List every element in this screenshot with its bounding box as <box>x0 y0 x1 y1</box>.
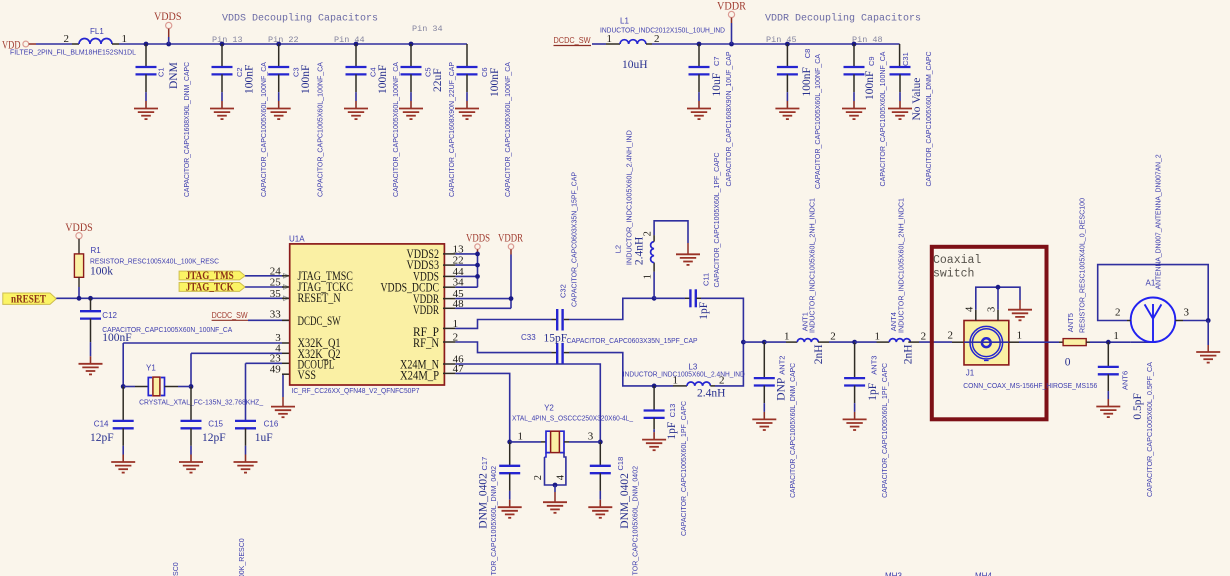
pin stub <box>443 307 455 309</box>
wire VSS gnd stub <box>282 397 284 407</box>
svg-text:CAPACITOR_CAPC0603X35N_15PF_CA: CAPACITOR_CAPC0603X35N_15PF_CAP <box>570 172 579 307</box>
wire A1 to gnd <box>1207 321 1209 346</box>
svg-text:15pF: 15pF <box>544 333 568 345</box>
wire corner C6 <box>466 44 468 67</box>
svg-text:VDDR: VDDR <box>717 1 746 13</box>
svg-text:2: 2 <box>921 331 927 343</box>
svg-text:CAPACITOR_CAPC1005X60L_100NF_C: CAPACITOR_CAPC1005X60L_100NF_CA <box>391 62 400 197</box>
svg-text:IC_RF_CC26XX_QFN48_V2_QFNFC50P: IC_RF_CC26XX_QFN48_V2_QFNFC50P7 <box>292 386 420 395</box>
svg-text:1: 1 <box>643 274 654 279</box>
svg-text:Pin 22: Pin 22 <box>268 35 299 45</box>
wire C11 to ANT node <box>701 298 743 342</box>
underline DCDC_SW <box>554 45 592 47</box>
svg-text:C18: C18 <box>616 457 625 471</box>
pin stub <box>443 363 455 365</box>
pin stub left <box>282 352 290 354</box>
wire DCDC_SW pin33 <box>248 319 290 321</box>
pin Y1.2 <box>165 386 179 388</box>
junction C8 <box>785 42 790 47</box>
connector J1 <box>964 321 1009 365</box>
svg-text:CAPACITOR_CAPC1005X60L_100NF_C: CAPACITOR_CAPC1005X60L_100NF_CA <box>259 62 268 197</box>
svg-text:1pF: 1pF <box>666 422 678 440</box>
svg-text:DCDC_SW: DCDC_SW <box>554 36 591 45</box>
svg-text:2.4nH: 2.4nH <box>634 237 646 265</box>
junction C1 <box>144 42 149 47</box>
svg-text:nRESET: nRESET <box>11 294 46 306</box>
capacitor C9 <box>844 44 865 109</box>
wire pin13 <box>455 253 477 255</box>
wire to ANT2 <box>743 341 764 343</box>
wire Y2 left <box>510 441 541 443</box>
wire to ANT1 <box>764 341 786 343</box>
capacitor ANT3 <box>844 342 865 419</box>
svg-text:2: 2 <box>1115 307 1121 319</box>
junction pin44 <box>475 274 480 279</box>
wire ANT4 to J1 <box>919 341 952 343</box>
svg-text:VDDS Decoupling Capacitors: VDDS Decoupling Capacitors <box>222 13 378 25</box>
wire VDDS bus <box>477 254 479 287</box>
svg-text:35: 35 <box>270 288 282 300</box>
svg-text:ANT2: ANT2 <box>778 356 787 375</box>
pin FL1.1 <box>112 43 119 45</box>
ground Y2 <box>543 502 567 513</box>
svg-text:DCDC_SW: DCDC_SW <box>298 314 341 328</box>
svg-text:VDDR: VDDR <box>498 233 523 245</box>
wire J1 pin3 up <box>997 287 999 310</box>
capacitor C12 <box>80 298 101 364</box>
svg-text:C32: C32 <box>559 284 568 298</box>
pin C11.2 <box>696 297 701 299</box>
pin C32.1 <box>552 319 557 321</box>
wire VDDR stub2 <box>731 23 733 44</box>
crystal Y1 <box>148 378 164 396</box>
wire Y1 right <box>178 386 191 388</box>
wire ANT5 to A1 <box>1090 341 1131 343</box>
ground L2 <box>676 254 700 265</box>
svg-text:10uH: 10uH <box>622 59 648 71</box>
svg-text:L1: L1 <box>620 17 629 26</box>
wire L2 to gnd <box>654 221 688 243</box>
wire VDDS stub2 <box>168 37 170 44</box>
svg-text:2nH: 2nH <box>903 344 915 364</box>
capacitor ANT6 <box>1098 342 1119 406</box>
wire DCOUPL down <box>245 363 247 421</box>
capacitor C8 <box>777 44 798 109</box>
capacitor C33 <box>557 343 562 364</box>
pin circle VDDS 3 <box>475 244 480 249</box>
capacitor C16 <box>235 421 256 462</box>
ground VSS <box>271 407 295 418</box>
pin R1.2 <box>78 277 80 287</box>
svg-text:INDUCTOR_INDC1005X60L_2NH_INDC: INDUCTOR_INDC1005X60L_2NH_INDC1 <box>897 198 906 333</box>
svg-text:CAPACITOR_CAPC1005X60L_DNM_040: CAPACITOR_CAPC1005X60L_DNM_0402 <box>631 466 640 576</box>
coax switch enclosure <box>932 247 1047 419</box>
pin stub <box>443 253 455 255</box>
ground J1 <box>1008 310 1032 321</box>
inductor ANT4 <box>889 339 910 342</box>
pin A1.2 <box>1127 320 1131 322</box>
svg-text:CAPACITOR_CAPC1005X60L_1PF_CAP: CAPACITOR_CAPC1005X60L_1PF_CAPC <box>712 152 721 288</box>
pin R1.1 <box>78 239 80 254</box>
svg-text:RESISTOR_RESC1005X40L_0_RESC10: RESISTOR_RESC1005X40L_0_RESC100 <box>1078 198 1087 333</box>
wire node to C11 <box>654 297 685 299</box>
svg-text:C12: C12 <box>102 311 117 320</box>
pin L2.2 <box>653 235 655 242</box>
wire pin45 <box>455 298 511 300</box>
wire ANT3 to ANT4 <box>855 341 877 343</box>
svg-text:22uF: 22uF <box>432 68 444 92</box>
svg-text:Coaxial: Coaxial <box>933 254 981 267</box>
wire L2 gnd stub <box>687 243 689 254</box>
capacitor C31 <box>890 67 911 109</box>
wire through J1 <box>964 341 1009 343</box>
capacitor C17 <box>499 442 520 507</box>
svg-text:R1: R1 <box>91 246 102 255</box>
svg-text:C6: C6 <box>480 67 489 77</box>
svg-text:J1: J1 <box>966 369 975 378</box>
pin marker <box>284 296 289 301</box>
ground <box>843 419 867 430</box>
junction Y2.3 <box>598 440 603 445</box>
ground <box>842 109 866 120</box>
wire VDDS stub <box>168 29 170 37</box>
capacitor C6 <box>457 67 478 109</box>
junction VDDR <box>729 42 734 47</box>
svg-text:CAPACITOR_CAPC1005X60L_1PF_CAP: CAPACITOR_CAPC1005X60L_1PF_CAPC <box>679 400 688 536</box>
wire nRESET to RESET_N <box>56 297 289 299</box>
ground A1 <box>1196 352 1220 363</box>
capacitor C2 <box>212 44 233 109</box>
pin stub left <box>282 275 290 277</box>
junction RF node <box>741 340 746 345</box>
junction Y2 gnd <box>553 483 558 488</box>
svg-text:1: 1 <box>518 430 524 442</box>
IC U1A body <box>290 244 445 385</box>
pin C32.2 <box>564 319 569 321</box>
wire VDD stub <box>29 43 36 45</box>
wire R1 to net <box>78 287 80 298</box>
wire VDD to FL1 <box>36 43 72 45</box>
pin J1.4 <box>975 310 977 321</box>
ground <box>775 109 799 120</box>
pin circle VDDR <box>728 11 734 17</box>
svg-text:100k: 100k <box>90 266 113 278</box>
svg-text:100nF: 100nF <box>489 68 501 97</box>
svg-text:DNM_0402: DNM_0402 <box>478 473 490 529</box>
junction J1 gnd net <box>996 285 1001 290</box>
ground <box>210 109 234 120</box>
svg-text:switch: switch <box>933 268 974 281</box>
svg-text:0: 0 <box>1065 357 1071 369</box>
wire VDDR bus <box>510 255 512 309</box>
pin stub <box>443 275 455 277</box>
svg-text:RESISTOR_RESC1005X40L_100K_RES: RESISTOR_RESC1005X40L_100K_RESC0 <box>171 562 180 576</box>
svg-text:1pF: 1pF <box>698 302 710 320</box>
inductor L1 <box>620 40 646 44</box>
wire Y2 gnd <box>554 485 556 492</box>
ground <box>455 109 479 120</box>
pin stub <box>443 264 455 266</box>
capacitor C7 <box>689 44 710 109</box>
svg-text:2: 2 <box>948 330 954 342</box>
ground <box>399 109 423 120</box>
wire VDDR bus stub <box>510 249 512 254</box>
svg-text:Pin 44: Pin 44 <box>334 35 365 45</box>
junction C2 <box>220 42 225 47</box>
wire Y1 left <box>123 386 135 388</box>
pin stub <box>443 327 455 329</box>
pin stub <box>443 372 455 374</box>
pin C33.2 <box>564 352 569 354</box>
wire A1 pin3 <box>1183 320 1208 322</box>
svg-text:100nF: 100nF <box>377 65 389 94</box>
pin stub <box>443 286 455 288</box>
ground <box>134 109 158 120</box>
wire pin44 <box>455 275 477 277</box>
wire X32K_Q1 down <box>122 343 124 387</box>
svg-text:100nF: 100nF <box>244 65 256 94</box>
wire pin22 <box>455 264 477 266</box>
ground <box>1096 407 1120 418</box>
svg-text:CAPACITOR_CAPC1005X60L_DNM_CAP: CAPACITOR_CAPC1005X60L_DNM_CAPC <box>924 51 933 187</box>
wire to A1 stem <box>1131 341 1153 343</box>
junction C12 <box>88 296 93 301</box>
junction C3 <box>276 42 281 47</box>
pin L1.1 <box>606 43 620 45</box>
svg-text:DNM_0402: DNM_0402 <box>619 473 631 529</box>
ground <box>687 109 711 120</box>
svg-text:RESISTOR_RESC1005X40L_100K_RES: RESISTOR_RESC1005X40L_100K_RESC0 <box>237 538 246 576</box>
svg-text:CONN_COAX_MS-156HF_HIROSE_MS15: CONN_COAX_MS-156HF_HIROSE_MS156 <box>963 381 1097 390</box>
svg-text:C15: C15 <box>208 420 223 429</box>
junction pin13 <box>475 252 480 257</box>
svg-text:1: 1 <box>1017 329 1023 341</box>
wire VSS down <box>282 374 284 397</box>
svg-text:CAPACITOR_CAPC1608X90L_DNM_CAP: CAPACITOR_CAPC1608X90L_DNM_CAPC <box>182 61 191 197</box>
wire RF_N <box>455 342 551 353</box>
pin Y1.1 <box>135 386 148 388</box>
pin ANT5.1 <box>1059 341 1063 343</box>
pin marker <box>284 285 289 290</box>
svg-text:Y1: Y1 <box>146 364 156 373</box>
pin ANT5.2 <box>1086 341 1090 343</box>
junction Y1.2 <box>189 384 194 389</box>
wire JTAG_TCK <box>245 286 284 288</box>
svg-text:C9: C9 <box>867 56 876 66</box>
svg-text:C17: C17 <box>480 457 489 471</box>
capacitor ANT2 <box>754 342 775 419</box>
junction ANT6 <box>1106 340 1111 345</box>
wire VDDS rail <box>119 43 467 45</box>
svg-text:2: 2 <box>830 331 836 343</box>
inductor L2 <box>651 242 655 263</box>
svg-text:C14: C14 <box>94 420 109 429</box>
svg-text:INDUCTOR_INDC1005X60L_2NH_INDC: INDUCTOR_INDC1005X60L_2NH_INDC1 <box>808 198 817 333</box>
svg-text:1uF: 1uF <box>255 432 273 444</box>
junction R1 <box>77 296 82 301</box>
wire X32K_Q1 <box>123 342 282 344</box>
svg-text:49: 49 <box>270 364 282 376</box>
svg-text:CAPACITOR_CAPC0603X35N_15PF_CA: CAPACITOR_CAPC0603X35N_15PF_CAP <box>567 336 698 345</box>
svg-text:12pF: 12pF <box>90 432 114 444</box>
junction pin45 <box>509 296 514 301</box>
pin stub left <box>282 286 290 288</box>
ground <box>179 462 203 473</box>
svg-text:25: 25 <box>270 277 282 289</box>
pin ANT1.1 <box>786 341 797 343</box>
pin C33.1 <box>552 352 557 354</box>
junction VDDS <box>166 42 171 47</box>
svg-text:MH4: MH4 <box>975 572 992 576</box>
wire corner C31 <box>899 44 901 67</box>
junction C9 <box>852 42 857 47</box>
ground <box>234 462 258 473</box>
inductor ANT1 <box>797 339 818 342</box>
pin circle VDD <box>23 41 29 47</box>
svg-text:2.4nH: 2.4nH <box>697 388 725 400</box>
pin L2.1 <box>653 263 655 272</box>
svg-text:MH3: MH3 <box>885 572 902 576</box>
svg-text:U1A: U1A <box>289 235 305 244</box>
svg-text:RESET_N: RESET_N <box>298 291 341 305</box>
svg-text:1: 1 <box>784 331 790 343</box>
svg-text:3: 3 <box>1184 307 1190 319</box>
svg-text:1: 1 <box>1113 330 1119 342</box>
pin stub left <box>282 297 290 299</box>
svg-text:CAPACITOR_CAPC1005X60L_100NF_C: CAPACITOR_CAPC1005X60L_100NF_CA <box>503 62 512 197</box>
svg-text:10uF: 10uF <box>711 73 723 97</box>
svg-text:No Value: No Value <box>911 78 923 121</box>
wire DCDC_SW to L1 <box>592 43 606 45</box>
svg-text:XTAL_4PIN_S_OSCCC250X320X60-4L: XTAL_4PIN_S_OSCCC250X320X60-4L_ <box>512 414 634 423</box>
capacitor C14 <box>113 387 134 463</box>
pin A1.3 <box>1175 320 1183 322</box>
svg-text:VDDS: VDDS <box>466 233 490 245</box>
svg-text:CAPACITOR_CAPC1005X60L_100NF_C: CAPACITOR_CAPC1005X60L_100NF_CA <box>878 52 887 187</box>
junction Y1.1 <box>121 384 126 389</box>
wire L3 to ANT node <box>715 342 743 386</box>
svg-text:12pF: 12pF <box>202 432 226 444</box>
wire Y2 pins 2/4 to ground <box>545 453 547 457</box>
svg-text:C8: C8 <box>803 49 812 59</box>
ground <box>344 109 368 120</box>
capacitor C11 <box>690 289 695 307</box>
capacitor C32 <box>557 309 562 331</box>
ground <box>79 364 103 375</box>
svg-text:C33: C33 <box>521 333 536 342</box>
svg-text:33: 33 <box>270 308 282 320</box>
junction C4 <box>354 42 359 47</box>
svg-text:CAPACITOR_CAPC1005X60L_100NF_C: CAPACITOR_CAPC1005X60L_100NF_CA <box>813 54 822 189</box>
wire C32 to node <box>569 298 654 319</box>
svg-text:Pin 34: Pin 34 <box>412 24 443 34</box>
junction ANT2 <box>762 340 767 345</box>
pin marker <box>284 274 289 279</box>
pin circle VDDR 2 <box>508 244 513 249</box>
capacitor C4 <box>346 44 367 109</box>
net flag JTAG_TMS <box>179 271 245 280</box>
svg-text:C1: C1 <box>157 67 166 77</box>
svg-text:FL1: FL1 <box>90 27 104 36</box>
wire VDDR stub <box>731 18 733 23</box>
capacitor C1 <box>136 44 157 109</box>
capacitor C18 <box>590 442 611 507</box>
wire J1 gnd stub <box>1019 300 1021 310</box>
ground <box>752 419 776 430</box>
wire L2 bottom <box>653 272 655 299</box>
svg-text:2nH: 2nH <box>813 344 825 364</box>
resistor ANT5 <box>1063 339 1086 346</box>
svg-text:DNM: DNM <box>168 62 180 89</box>
junction C7 <box>697 42 702 47</box>
svg-text:Pin 48: Pin 48 <box>852 35 883 45</box>
pin stub left <box>282 362 290 364</box>
svg-text:X24M_P: X24M_P <box>400 369 439 383</box>
svg-text:2: 2 <box>64 33 70 45</box>
antenna A1 <box>1131 298 1176 343</box>
svg-text:1: 1 <box>607 33 613 45</box>
wire X32K_Q2 down <box>190 353 192 386</box>
crystal Y2 <box>546 431 564 452</box>
svg-text:CAPACITOR_CAPC1005X60L_1PF_CAP: CAPACITOR_CAPC1005X60L_1PF_CAPC <box>880 362 889 498</box>
svg-text:Pin 45: Pin 45 <box>766 35 797 45</box>
svg-text:3: 3 <box>588 430 594 442</box>
pin J1.2 <box>952 341 964 343</box>
svg-text:CAPACITOR_CAPC1005X60L_DNM_CAP: CAPACITOR_CAPC1005X60L_DNM_CAPC <box>788 362 797 498</box>
pin ANT4.1 <box>877 341 890 343</box>
wire Y2 gnd stub <box>554 492 556 502</box>
svg-text:L2: L2 <box>614 245 623 253</box>
svg-text:4: 4 <box>556 474 567 480</box>
svg-text:CAPACITOR_CAPC1005X60L_DNM_040: CAPACITOR_CAPC1005X60L_DNM_0402 <box>489 466 498 576</box>
pin ANT1.2 <box>818 341 829 343</box>
svg-text:ANT3: ANT3 <box>870 356 879 375</box>
wire A1 loop <box>1098 265 1209 321</box>
ferrite bead FL1 <box>79 39 112 45</box>
capacitor C5 <box>401 44 422 109</box>
pin Y2.1 stub <box>541 441 546 443</box>
junction A1 gnd <box>1206 318 1211 323</box>
pin J1.3 <box>997 310 999 321</box>
inductor L3 <box>687 382 710 386</box>
svg-text:1: 1 <box>875 331 881 343</box>
svg-text:4: 4 <box>965 306 976 312</box>
junction L2 <box>652 296 657 301</box>
wire C33 to L3 <box>569 353 673 386</box>
wire pin48 <box>455 307 511 309</box>
svg-text:VSS: VSS <box>298 368 317 382</box>
ground <box>888 109 912 120</box>
wire X32K_Q2 <box>191 352 282 354</box>
ground <box>111 462 135 473</box>
junction Y2.1 <box>507 440 512 445</box>
net flag nRESET <box>3 293 57 304</box>
ground <box>267 109 291 120</box>
ground <box>642 440 666 451</box>
wire Y2 right <box>569 441 600 443</box>
pin FL1.2 <box>72 43 79 45</box>
svg-text:24: 24 <box>270 265 282 277</box>
svg-text:ANTENNA_DN007_ANTENNA_DN007AN_: ANTENNA_DN007_ANTENNA_DN007AN_2 <box>1154 154 1163 289</box>
svg-text:DCDC_SW: DCDC_SW <box>212 311 248 320</box>
pin J1.1 <box>1009 341 1019 343</box>
svg-text:FILTER_2PIN_FIL_BLM18HE152SN1D: FILTER_2PIN_FIL_BLM18HE152SN1DL <box>10 48 136 57</box>
svg-text:ANT5: ANT5 <box>1066 313 1075 332</box>
svg-text:Y2: Y2 <box>544 404 554 413</box>
pin ANT4.2 <box>908 341 919 343</box>
svg-text:CRYSTAL_XTAL_FC-135N_32.768KHZ: CRYSTAL_XTAL_FC-135N_32.768KHZ_ <box>139 398 264 407</box>
svg-text:1pF: 1pF <box>867 383 879 401</box>
